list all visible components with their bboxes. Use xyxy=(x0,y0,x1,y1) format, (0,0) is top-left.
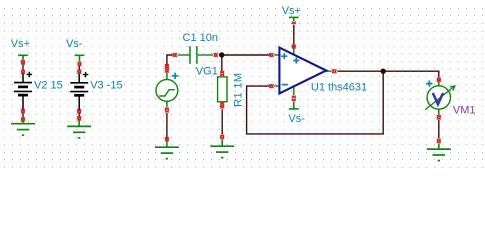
svg-text:VG1: VG1 xyxy=(196,65,218,77)
pin X marks VM1 ground xyxy=(437,139,441,143)
wire Vs+ jumper to V2 xyxy=(22,64,24,70)
pin X marks VG1 top xyxy=(165,64,169,72)
pin X marks op-amp -input xyxy=(270,84,274,88)
pin X marks VG1 bottom xyxy=(165,108,169,113)
wire VM1 to ground xyxy=(438,120,440,139)
svg-text:VM1: VM1 xyxy=(453,105,476,117)
pin X marks V2 bottom xyxy=(21,109,25,113)
wire op-amp output to junction xyxy=(337,70,383,72)
ground below V3 xyxy=(67,120,91,138)
wire junction to VM1 xyxy=(383,71,439,77)
ground below R1 xyxy=(210,140,234,158)
svg-text:V2 15: V2 15 xyxy=(34,79,63,91)
ground below V2 xyxy=(11,121,35,135)
ground below VM1 xyxy=(427,143,451,160)
wire VG1 top to C1 xyxy=(167,55,173,65)
pin X marks V2 top xyxy=(21,70,25,74)
pin X marks V3 ground xyxy=(77,116,81,120)
wire junction down to R1 xyxy=(221,55,223,71)
pin X marks V3 bottom xyxy=(77,109,81,113)
pin X marks VM1 bottom xyxy=(437,115,441,119)
wire V3 to ground xyxy=(78,113,80,116)
pin X marks C1 right xyxy=(214,53,218,57)
junction node output xyxy=(381,69,386,74)
wire junction to op-amp +input xyxy=(219,54,270,56)
pin X marks V3 top xyxy=(77,70,81,74)
svg-text:Vs-: Vs- xyxy=(288,113,305,125)
wire VG1 to ground xyxy=(166,113,168,138)
svg-text:U1 ths4631: U1 ths4631 xyxy=(311,82,367,94)
ground below VG1 xyxy=(155,141,179,159)
op-amp U1 xyxy=(274,48,331,96)
resistor R1 xyxy=(218,77,227,102)
svg-text:Vs-: Vs- xyxy=(66,38,83,50)
pin X marks op-amp V- pin xyxy=(292,96,296,101)
battery V2 xyxy=(14,72,32,110)
wire Vs+ jumper to op-amp V+ pin xyxy=(293,25,295,45)
node Vs+ terminal above U1 xyxy=(289,17,299,23)
svg-text:V3 -15: V3 -15 xyxy=(90,79,122,91)
pin X marks V2 ground xyxy=(21,118,25,122)
feedback wire output to inverting input xyxy=(247,71,384,134)
pin X marks R1 top xyxy=(220,71,224,76)
battery V3 xyxy=(70,72,88,110)
node Vs+ terminal above V2 xyxy=(18,55,28,64)
svg-text:C1 10n: C1 10n xyxy=(183,32,218,44)
wire R1 to ground xyxy=(221,109,223,134)
pin X marks VM1 top xyxy=(437,78,441,82)
pin X marks op-amp V+ pin xyxy=(292,45,296,49)
wire V2 to ground xyxy=(22,113,24,118)
pin X mark VG1 ground xyxy=(165,137,169,141)
junction node A (C1/R1/op-amp) xyxy=(219,52,224,57)
pin X marks R1 ground xyxy=(220,135,224,139)
node Vs- terminal above V3 xyxy=(75,55,85,66)
capacitor C1 xyxy=(178,46,214,64)
node Vs- terminal below U1 xyxy=(289,101,299,109)
svg-text:Vs+: Vs+ xyxy=(11,38,30,50)
pin X marks C1 left xyxy=(173,53,177,57)
wire Vs- jumper to V3 xyxy=(78,66,80,70)
voltmeter VM1 xyxy=(425,80,455,115)
svg-text:Vs+: Vs+ xyxy=(282,5,301,17)
polarity + of VG1 xyxy=(172,73,178,79)
pin X marks op-amp output xyxy=(332,69,336,73)
pin X marks R1 bottom xyxy=(220,103,224,109)
svg-text:R1 1M: R1 1M xyxy=(232,73,244,107)
pin X marks op-amp +input xyxy=(270,53,274,57)
generator VG1 xyxy=(156,72,178,107)
